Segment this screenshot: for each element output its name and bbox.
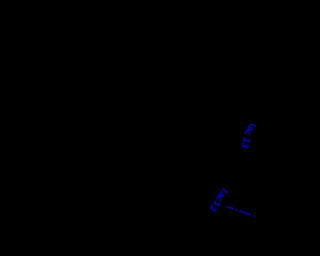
stream line (dash-dot)	[227, 207, 259, 218]
label lac 12	[206, 187, 230, 214]
label lac 13	[239, 123, 258, 150]
